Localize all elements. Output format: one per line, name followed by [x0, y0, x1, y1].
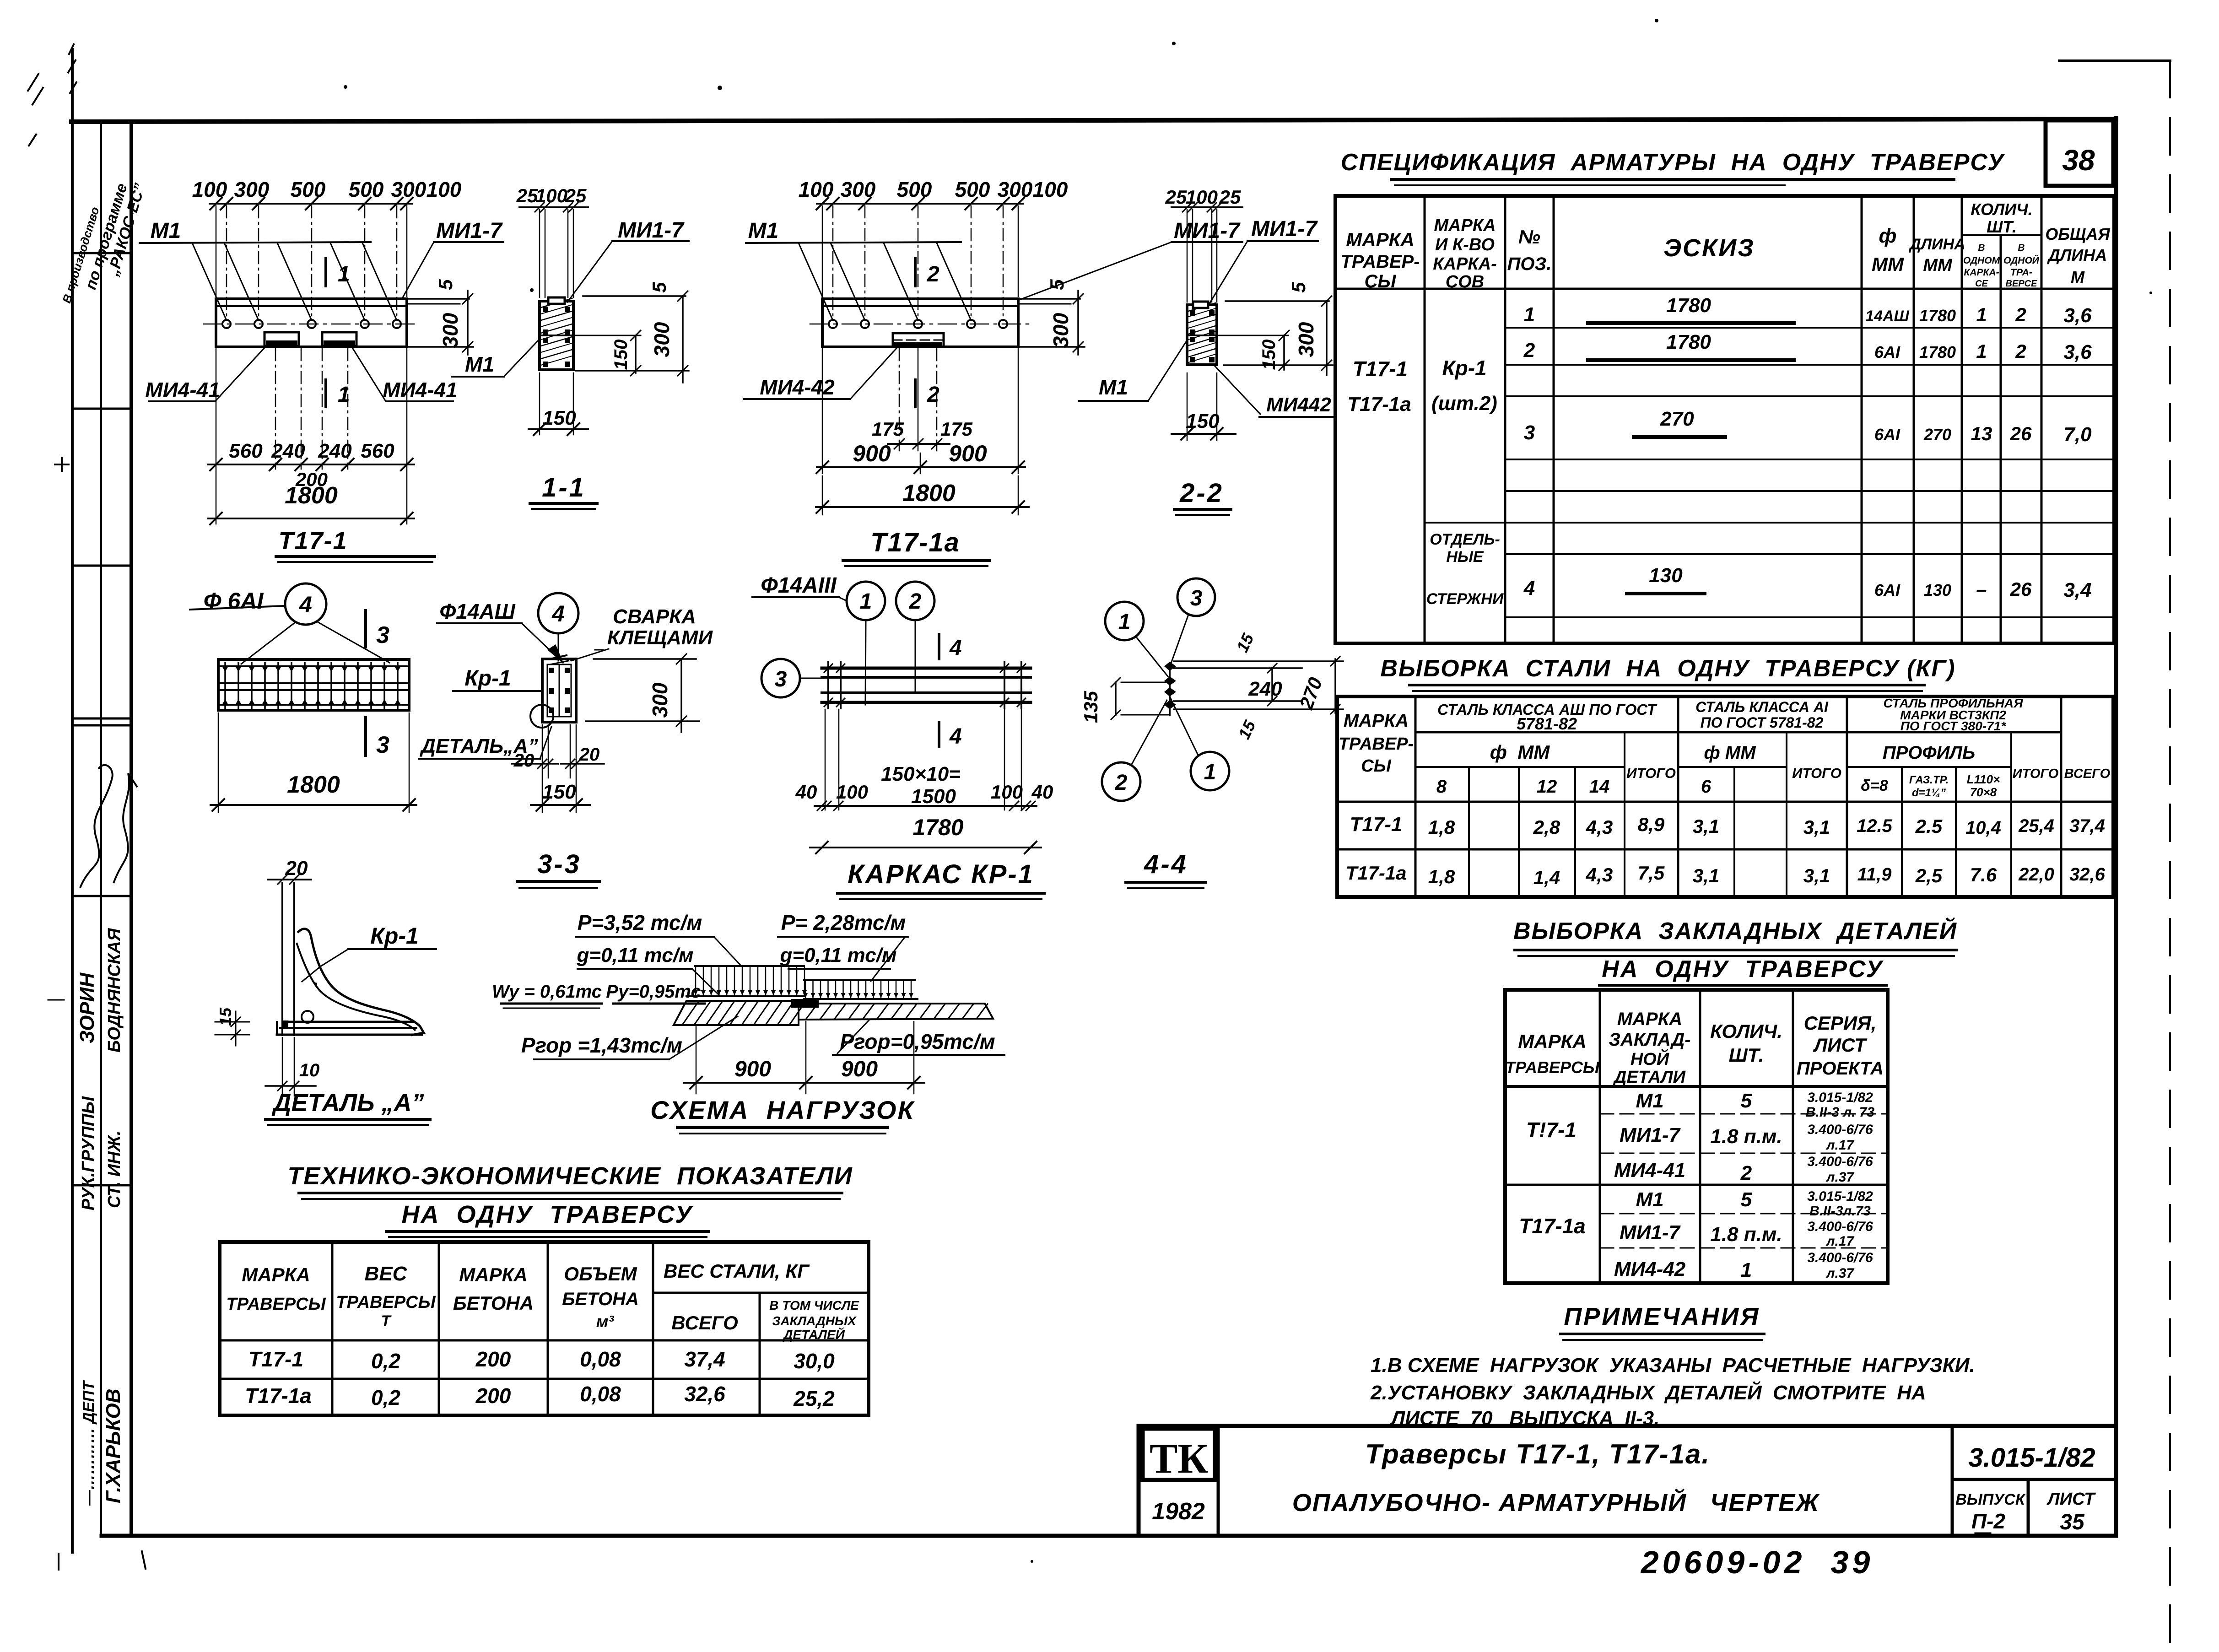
svg-text:СТЕРЖНИ: СТЕРЖНИ — [1426, 590, 1504, 608]
svg-text:Ргор=0,95тс/м: Ргор=0,95тс/м — [840, 1030, 995, 1053]
position circle 4 left — [285, 583, 326, 625]
svg-text:5: 5 — [1046, 279, 1068, 290]
detail A hook bar outline — [297, 929, 424, 1035]
detail A callout circle on 3-3 — [530, 705, 553, 728]
svg-text:560: 560 — [229, 440, 263, 462]
svg-text:4: 4 — [551, 601, 565, 626]
svg-text:4: 4 — [299, 592, 312, 617]
svg-text:3: 3 — [775, 667, 787, 691]
svg-text:0,08: 0,08 — [580, 1382, 621, 1406]
svg-text:150: 150 — [1259, 340, 1279, 370]
T17-1a dims 175 175 — [899, 349, 900, 451]
svg-text:3.400-6/76: 3.400-6/76 — [1807, 1250, 1873, 1265]
svg-text:ЛИСТ: ЛИСТ — [2046, 1490, 2096, 1509]
section 2-2 top dim line — [1172, 206, 1242, 208]
svg-text:100: 100 — [1033, 178, 1068, 201]
T17-1 bottom dim line 1 — [208, 464, 414, 465]
svg-text:Т17-1: Т17-1 — [248, 1347, 303, 1371]
svg-text:g=0,11 тс/м: g=0,11 тс/м — [577, 944, 694, 966]
position circle 3 — [761, 659, 800, 697]
load scheme dim extension lines — [696, 1025, 697, 1094]
svg-text:П-2: П-2 — [1971, 1509, 2005, 1533]
svg-text:Т17-1а: Т17-1а — [245, 1384, 312, 1408]
svg-text:2-2: 2-2 — [1179, 478, 1224, 508]
svg-text:560: 560 — [361, 440, 394, 462]
left load block — [695, 965, 804, 967]
svg-text:1,8: 1,8 — [1428, 866, 1455, 887]
svg-text:130: 130 — [1649, 564, 1683, 587]
svg-text:15: 15 — [216, 1007, 235, 1026]
svg-text:КЛЕЩАМИ: КЛЕЩАМИ — [607, 626, 713, 649]
svg-text:ПРОФИЛЬ: ПРОФИЛЬ — [1883, 743, 1975, 763]
svg-text:ВЕРСЕ: ВЕРСЕ — [2006, 279, 2038, 289]
svg-text:300: 300 — [1294, 322, 1318, 357]
svg-text:20: 20 — [285, 857, 308, 880]
svg-text:900: 900 — [734, 1057, 771, 1081]
svg-text:ОБЩАЯ: ОБЩАЯ — [2045, 225, 2110, 243]
left hatched strip — [674, 1001, 799, 1025]
detail A weld circle — [302, 1011, 313, 1023]
svg-text:1780: 1780 — [1919, 306, 1956, 325]
svg-text:2: 2 — [2015, 304, 2026, 325]
section mark 1 top — [324, 259, 327, 286]
svg-text:3,6: 3,6 — [2063, 304, 2092, 327]
stamp column divider y553 — [72, 252, 131, 254]
4-4 dim 135 — [1115, 682, 1117, 715]
svg-text:Кр-1: Кр-1 — [1442, 356, 1486, 380]
svg-text:1: 1 — [1976, 340, 1987, 362]
svg-text:1500: 1500 — [911, 785, 956, 808]
svg-text:М1: М1 — [151, 219, 181, 243]
svg-text:ТРАВЕР-: ТРАВЕР- — [1339, 734, 1414, 754]
svg-text:130: 130 — [1924, 581, 1951, 599]
3-3 bottom extension lines — [542, 725, 543, 812]
svg-text:1780: 1780 — [1666, 331, 1711, 353]
svg-text:НЫЕ: НЫЕ — [1446, 548, 1484, 566]
section 3-3 rebar dots — [549, 668, 554, 673]
spec table verticals — [1424, 196, 1426, 643]
beam T17-1a top flange line — [822, 305, 1018, 307]
svg-text:3.015-1/82: 3.015-1/82 — [1968, 1443, 2095, 1473]
sheet number box 38 — [2046, 120, 2113, 186]
sheet frame right border — [2114, 118, 2118, 1536]
spec table row lines — [1505, 327, 2114, 329]
svg-text:150: 150 — [611, 340, 631, 370]
svg-text:ТРАВЕР-: ТРАВЕР- — [1340, 252, 1420, 272]
position circle 1 — [847, 582, 885, 620]
spec table outer — [1335, 196, 2114, 643]
svg-text:5781-82: 5781-82 — [1517, 714, 1577, 733]
svg-text:12.5: 12.5 — [1857, 816, 1893, 836]
title block right divider — [1951, 1426, 1954, 1536]
svg-text:ф ММ: ф ММ — [1490, 741, 1550, 763]
svg-text:500: 500 — [897, 178, 932, 201]
T17-1 top dimension line — [210, 203, 412, 205]
svg-text:1: 1 — [1741, 1259, 1752, 1281]
svg-text:40: 40 — [795, 781, 817, 803]
svg-text:Wy = 0,61тс: Wy = 0,61тс — [492, 982, 602, 1002]
svg-text:ПРОЕКТА: ПРОЕКТА — [1797, 1058, 1884, 1079]
svg-text:3.400-6/76: 3.400-6/76 — [1807, 1122, 1873, 1137]
svg-text:МАРКА: МАРКА — [1346, 229, 1414, 250]
svg-text:л.37: л.37 — [1825, 1266, 1855, 1281]
stamp column double divider y1570 — [72, 718, 131, 720]
section 2-2 hatching — [1188, 303, 1215, 311]
svg-text:2,5: 2,5 — [1915, 865, 1943, 886]
svg-text:–: – — [1976, 578, 1987, 600]
svg-text:1780: 1780 — [1919, 343, 1956, 362]
svg-text:6АI: 6АI — [1874, 343, 1900, 362]
svg-text:2: 2 — [2015, 340, 2026, 362]
svg-text:500: 500 — [349, 178, 384, 201]
svg-text:М1: М1 — [1099, 375, 1128, 399]
svg-text:КАРКАС КР-1: КАРКАС КР-1 — [848, 859, 1034, 889]
sheet corner mark top right horizontal — [2059, 59, 2170, 62]
svg-text:ВСЕГО: ВСЕГО — [671, 1312, 738, 1333]
svg-text:175: 175 — [940, 418, 973, 440]
embed table outer — [1505, 990, 1888, 1283]
svg-text:8: 8 — [1436, 777, 1447, 797]
svg-text:500: 500 — [955, 178, 990, 201]
steel table verticals sub — [1468, 767, 1470, 897]
svg-text:Т17-1а: Т17-1а — [1345, 862, 1406, 884]
section 1-1 extension lines — [539, 210, 540, 297]
steel table horizontals — [1415, 731, 2061, 734]
karkas end cross ties — [827, 662, 829, 708]
svg-text:СЫ: СЫ — [1365, 271, 1397, 292]
svg-text:300: 300 — [998, 178, 1033, 201]
svg-text:(шт.2): (шт.2) — [1431, 392, 1497, 415]
svg-text:1,4: 1,4 — [1533, 867, 1560, 888]
svg-text:22,0: 22,0 — [2018, 864, 2054, 885]
svg-text:ТРАВЕРСЫ: ТРАВЕРСЫ — [1505, 1058, 1600, 1077]
svg-text:М1: М1 — [748, 219, 779, 243]
svg-text:Кр-1: Кр-1 — [370, 923, 419, 949]
svg-text:2.УСТАНОВКУ ЗАКЛАДНЫХ ДЕТАЛЕ: 2.УСТАНОВКУ ЗАКЛАДНЫХ ДЕТАЛЕЙ СМОТРИТЕ Н… — [1370, 1381, 1926, 1404]
section 2-2 dim 300 — [1226, 300, 1329, 302]
svg-text:ПО ГОСТ 380-71*: ПО ГОСТ 380-71* — [1900, 719, 2007, 733]
svg-text:СЕРИЯ,: СЕРИЯ, — [1804, 1012, 1877, 1034]
svg-text:25: 25 — [1165, 186, 1187, 208]
svg-text:100: 100 — [991, 781, 1023, 803]
svg-text:3: 3 — [376, 732, 389, 758]
svg-text:МАРКА: МАРКА — [1518, 1031, 1586, 1052]
svg-text:ВЫБОРКА СТАЛИ НА ОДНУ ТРАВ: ВЫБОРКА СТАЛИ НА ОДНУ ТРАВЕРСУ (КГ) — [1380, 655, 1955, 682]
svg-text:1: 1 — [1976, 304, 1987, 325]
title block ТК cell divider — [1217, 1426, 1220, 1536]
svg-text:МИ1-7: МИ1-7 — [436, 219, 503, 243]
svg-text:300: 300 — [438, 313, 462, 348]
svg-text:ТЕХНИКО-ЭКОНОМИЧЕСКИЕ ПОКАЗАТ: ТЕХНИКО-ЭКОНОМИЧЕСКИЕ ПОКАЗАТЕЛИ — [287, 1162, 853, 1190]
4-4 position circle 2 bottom-left — [1102, 762, 1140, 801]
svg-text:МАРКА: МАРКА — [1344, 711, 1409, 731]
svg-text:М1: М1 — [465, 352, 494, 376]
svg-text:МИ4-41: МИ4-41 — [145, 378, 220, 402]
spec table header bottom — [1335, 288, 2114, 290]
svg-text:15: 15 — [1233, 630, 1258, 655]
svg-text:КОЛИЧ.: КОЛИЧ. — [1971, 200, 2032, 219]
4-4 horizontal ref lines — [1174, 660, 1343, 662]
svg-text:БЕТОНА: БЕТОНА — [453, 1292, 534, 1314]
svg-text:3,1: 3,1 — [1803, 865, 1830, 886]
svg-text:4,3: 4,3 — [1586, 816, 1613, 838]
svg-text:10: 10 — [299, 1060, 320, 1080]
svg-text:В.II-3 л. 73: В.II-3 л. 73 — [1806, 1105, 1875, 1120]
svg-text:ШТ.: ШТ. — [1729, 1044, 1764, 1066]
T17-1a extension lines — [832, 206, 834, 320]
svg-text:МИ4-42: МИ4-42 — [760, 375, 835, 399]
svg-text:СХЕМА НАГРУЗОК: СХЕМА НАГРУЗОК — [650, 1096, 915, 1124]
position circle 4 for 3-3 — [538, 593, 578, 633]
svg-text:1800: 1800 — [285, 482, 338, 509]
svg-text:Т17-1а: Т17-1а — [1519, 1214, 1586, 1238]
section 1-1 dim 300 lines — [583, 295, 686, 297]
svg-text:3,6: 3,6 — [2063, 341, 2092, 363]
svg-text:26: 26 — [2010, 578, 2032, 600]
svg-text:НА ОДНУ ТРАВЕРСУ: НА ОДНУ ТРАВЕРСУ — [1602, 956, 1884, 983]
svg-text:Т17-1: Т17-1 — [1350, 813, 1403, 836]
section mark 3 bottom — [364, 717, 367, 756]
svg-text:900: 900 — [853, 441, 891, 466]
svg-text:3.015-1/82: 3.015-1/82 — [1807, 1090, 1873, 1105]
svg-text:32,6: 32,6 — [2069, 864, 2106, 885]
svg-text:Т17-1: Т17-1 — [278, 527, 347, 555]
embed table row dividers — [1600, 1113, 1888, 1115]
mesh plan inner horizontal bars — [218, 665, 409, 667]
embed МИ4-41 left in beam — [265, 332, 299, 346]
4-4 position circle 1 top-left — [1105, 602, 1144, 640]
svg-text:300: 300 — [648, 682, 672, 718]
sheet frame left border — [130, 122, 133, 1536]
svg-text:Т!7-1: Т!7-1 — [1526, 1118, 1577, 1142]
svg-text:3,1: 3,1 — [1693, 815, 1719, 837]
T17-1a beam right dim 300 — [1077, 291, 1079, 355]
svg-text:МИ1-7: МИ1-7 — [1620, 1124, 1681, 1146]
svg-text:3-3: 3-3 — [537, 849, 581, 879]
svg-text:7,0: 7,0 — [2063, 423, 2092, 446]
svg-text:МАРКА: МАРКА — [1617, 1009, 1682, 1029]
stamp column divider y1236 — [72, 565, 131, 567]
svg-text:Ф14АIII: Ф14АIII — [761, 573, 837, 598]
svg-text:МИ4-42: МИ4-42 — [1614, 1258, 1686, 1280]
stamp signature squiggle 1 — [80, 765, 113, 888]
section 1-1 bottom dim 150 — [539, 373, 540, 435]
4-4 dim 270 — [1334, 659, 1336, 713]
svg-text:КОЛИЧ.: КОЛИЧ. — [1710, 1020, 1782, 1042]
section 3-3 body — [542, 659, 576, 722]
svg-text:1982: 1982 — [1152, 1498, 1205, 1525]
svg-text:1: 1 — [1204, 760, 1216, 784]
svg-text:ЛИСТ: ЛИСТ — [1813, 1034, 1868, 1056]
section mark 3 top — [364, 610, 367, 647]
svg-text:2: 2 — [927, 262, 939, 286]
svg-text:В: В — [1978, 243, 1985, 253]
section mark 4 top — [938, 634, 940, 659]
svg-text:ММ: ММ — [1872, 254, 1904, 275]
svg-text:1: 1 — [1118, 610, 1131, 634]
svg-text:л.17: л.17 — [1825, 1234, 1855, 1249]
left edge scribble marks — [27, 73, 43, 146]
svg-text:5: 5 — [1741, 1188, 1752, 1211]
svg-text:ТК: ТК — [1150, 1435, 1208, 1482]
right load block — [804, 979, 915, 981]
section 1-1 top dim line — [519, 206, 588, 208]
spec table col2 divider for otdeln — [1425, 522, 1505, 524]
title block outer — [1139, 1426, 2116, 1536]
svg-text:200: 200 — [475, 1384, 511, 1408]
svg-text:35: 35 — [2060, 1510, 2085, 1534]
svg-text:4: 4 — [949, 636, 962, 660]
svg-text:7.6: 7.6 — [1970, 864, 1997, 885]
svg-text:4-4: 4-4 — [1144, 849, 1188, 879]
mesh plan outline — [218, 659, 409, 710]
svg-text:25: 25 — [516, 185, 538, 206]
svg-text:№: № — [1518, 226, 1540, 248]
svg-text:15: 15 — [1235, 717, 1259, 742]
svg-text:МИ1-7: МИ1-7 — [618, 218, 685, 243]
svg-text:Т: Т — [381, 1312, 392, 1330]
svg-text:5: 5 — [1288, 282, 1309, 293]
detail A black weld dot — [282, 1020, 288, 1028]
svg-text:ф: ф — [1879, 225, 1897, 247]
stamp signature squiggle 2 — [113, 773, 137, 883]
svg-text:ВЕС СТАЛИ, КГ: ВЕС СТАЛИ, КГ — [664, 1260, 810, 1282]
beam T17-1 holes — [222, 320, 231, 328]
stamp column divider y2590 — [72, 1184, 131, 1187]
svg-text:25,4: 25,4 — [2018, 816, 2054, 836]
beam T17-1 hole centerline — [204, 324, 419, 325]
svg-text:8,9: 8,9 — [1638, 814, 1665, 835]
svg-text:37,4: 37,4 — [684, 1347, 725, 1371]
svg-text:СТАЛЬ КЛАССА АI: СТАЛЬ КЛАССА АI — [1695, 699, 1829, 715]
svg-text:ДЛИНА: ДЛИНА — [1908, 236, 1965, 253]
svg-text:М1: М1 — [1636, 1090, 1663, 1112]
svg-text:ОПАЛУБОЧНО- АРМАТУРНЫЙ ЧЕРТЕ: ОПАЛУБОЧНО- АРМАТУРНЫЙ ЧЕРТЕЖ — [1292, 1488, 1820, 1517]
svg-text:Г.ХАРЬКОВ: Г.ХАРЬКОВ — [102, 1388, 124, 1503]
svg-text:ВЕС: ВЕС — [365, 1263, 408, 1285]
svg-text:2,8: 2,8 — [1533, 816, 1560, 838]
svg-text:ММ: ММ — [1923, 256, 1953, 275]
svg-text:135: 135 — [1080, 691, 1101, 723]
section 2-2 extension lines — [1187, 210, 1188, 302]
stamp column middle line — [100, 122, 102, 1536]
svg-text:3: 3 — [376, 622, 389, 648]
svg-text:Ф 6АI: Ф 6АI — [204, 588, 264, 614]
detail A vertical plate — [281, 883, 283, 1035]
svg-text:ВЫБОРКА ЗАКЛАДНЫХ ДЕТАЛЕЙ: ВЫБОРКА ЗАКЛАДНЫХ ДЕТАЛЕЙ — [1513, 917, 1957, 945]
karkas extension dashed verticals — [825, 709, 826, 810]
svg-text:СПЕЦИФИКАЦИЯ АРМАТУРЫ НА ОД: СПЕЦИФИКАЦИЯ АРМАТУРЫ НА ОДНУ ТРАВЕРСУ — [1341, 149, 2005, 176]
svg-text:Т17-1а: Т17-1а — [870, 528, 960, 557]
svg-text:1780: 1780 — [912, 815, 963, 840]
svg-text:270: 270 — [1923, 425, 1951, 444]
section 1-1 top plate МИ1-7 — [548, 297, 565, 304]
svg-text:ТРАВЕРСЫ: ТРАВЕРСЫ — [226, 1295, 326, 1314]
svg-text:3,1: 3,1 — [1803, 816, 1830, 838]
svg-text:1: 1 — [338, 262, 350, 286]
svg-text:4: 4 — [949, 724, 962, 749]
section mark 4 bottom — [938, 723, 940, 747]
title block cell Выпуск — [2027, 1479, 2030, 1536]
T17-1 extension lines from dim to holes — [226, 206, 227, 320]
beam T17-1 outline — [216, 299, 407, 347]
TK logo box — [1143, 1429, 1215, 1480]
tech table horizontals — [653, 1292, 869, 1294]
section mark 1 bottom — [324, 380, 327, 406]
4-4 leader lines X — [1136, 637, 1168, 676]
svg-text:ЭСКИЗ: ЭСКИЗ — [1663, 234, 1755, 262]
tech table verticals — [331, 1242, 334, 1415]
svg-text:СЫ: СЫ — [1361, 756, 1391, 776]
svg-text:ГАЗ.ТР.: ГАЗ.ТР. — [1909, 774, 1949, 786]
svg-text:Ргор =1,43тс/м: Ргор =1,43тс/м — [521, 1033, 682, 1057]
scan noise dots — [718, 86, 722, 90]
mesh plan vertical bars with weld ticks — [224, 663, 226, 708]
svg-text:В.II-3л.73: В.II-3л.73 — [1809, 1204, 1871, 1219]
svg-text:20: 20 — [579, 745, 600, 765]
svg-text:М: М — [2071, 268, 2085, 286]
svg-text:25: 25 — [1219, 186, 1241, 208]
svg-text:МИ1-7: МИ1-7 — [1251, 217, 1318, 241]
3-3 dim 300 — [594, 658, 696, 660]
section 1-1 hatching — [541, 298, 572, 308]
svg-text:ВЫПУСК: ВЫПУСК — [1955, 1491, 2026, 1508]
svg-text:—………… ДЕПТ: —………… ДЕПТ — [80, 1380, 97, 1506]
sheet scan edge vertical right — [2169, 61, 2171, 1647]
svg-text:3: 3 — [1190, 586, 1203, 610]
svg-text:100: 100 — [836, 781, 868, 803]
beam T17-1a outline — [822, 299, 1018, 347]
svg-text:МАРКА: МАРКА — [459, 1264, 527, 1285]
svg-text:900: 900 — [949, 441, 987, 466]
svg-text:6АI: 6АI — [1874, 425, 1900, 444]
svg-text:300: 300 — [391, 178, 427, 201]
tech table outer — [220, 1242, 869, 1415]
svg-text:2: 2 — [1740, 1162, 1752, 1184]
svg-text:ШТ.: ШТ. — [1987, 217, 2017, 236]
svg-text:0,2: 0,2 — [371, 1386, 400, 1409]
svg-text:2: 2 — [1523, 339, 1535, 362]
svg-text:4: 4 — [1523, 577, 1535, 599]
svg-text:ИТОГО: ИТОГО — [1626, 765, 1676, 781]
svg-text:2: 2 — [927, 383, 939, 407]
svg-text:32,6: 32,6 — [684, 1382, 725, 1406]
stamp column divider y1958 — [72, 895, 131, 897]
circle 4 leader diagonals — [241, 622, 295, 664]
svg-text:30,0: 30,0 — [794, 1349, 835, 1373]
svg-text:ДЛИНА: ДЛИНА — [2047, 246, 2107, 265]
svg-text:Р=3,52 тс/м: Р=3,52 тс/м — [578, 911, 702, 934]
svg-text:МАРКА: МАРКА — [242, 1264, 310, 1285]
svg-text:ИТОГО: ИТОГО — [1792, 765, 1841, 781]
circle leaders down to bars — [865, 620, 866, 705]
T17-1 beam right dim 5 — [409, 298, 469, 300]
svg-text:3.400-6/76: 3.400-6/76 — [1807, 1219, 1873, 1234]
svg-text:2: 2 — [909, 589, 922, 614]
beam top line under loads — [686, 995, 804, 997]
svg-text:13: 13 — [1971, 423, 1992, 444]
svg-text:d=1¼”: d=1¼” — [1912, 787, 1946, 799]
svg-text:Траверсы Т17-1, Т17-1а.: Траверсы Т17-1, Т17-1а. — [1365, 1439, 1710, 1469]
svg-text:1-1: 1-1 — [542, 473, 586, 502]
svg-text:300: 300 — [650, 322, 674, 357]
svg-text:3: 3 — [1524, 421, 1535, 444]
section 2-2 bottom dim 150 — [1187, 373, 1188, 440]
svg-text:л.17: л.17 — [1825, 1138, 1855, 1153]
stamp column divider y893 — [72, 408, 131, 410]
svg-text:1.8 п.м.: 1.8 п.м. — [1710, 1223, 1782, 1246]
svg-text:ЗАКЛАДНЫХ: ЗАКЛАДНЫХ — [772, 1314, 857, 1328]
